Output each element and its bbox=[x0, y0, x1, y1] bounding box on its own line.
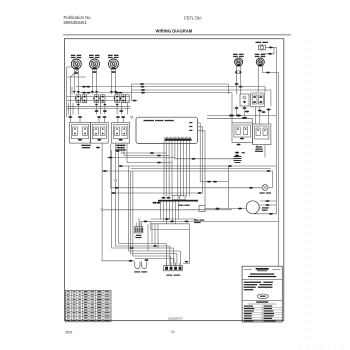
wire y224 bbox=[151, 223, 190, 225]
terminal blob bbox=[216, 208, 220, 210]
wire bus N top bbox=[132, 90, 271, 106]
wire receptacle chain bottom bbox=[67, 100, 130, 102]
terminal blob bbox=[165, 218, 169, 220]
wire left run x118 to bundle bbox=[119, 144, 167, 244]
receptacle block A3 bbox=[114, 95, 126, 103]
wire drop to terminal block bbox=[170, 256, 172, 265]
wire surface unit lead bbox=[91, 69, 93, 95]
header rule bbox=[63, 34, 291, 36]
wire relay to motor bbox=[205, 208, 228, 210]
wire right vertical to warning box bbox=[278, 221, 280, 266]
wire drop to terminal block bbox=[169, 246, 171, 265]
wire y168 run bbox=[131, 167, 271, 169]
connector blob mid row bbox=[103, 110, 107, 112]
wire y219 bbox=[151, 218, 197, 220]
connector bar stack bbox=[234, 156, 242, 163]
wire to oven light conn bbox=[139, 221, 141, 226]
surface unit LF bbox=[233, 54, 244, 67]
blob above receptacle bbox=[110, 91, 113, 92]
surface unit WZ bbox=[108, 55, 119, 70]
wire receptacle drop bbox=[68, 103, 70, 115]
blob on bundle bbox=[153, 245, 157, 247]
oven light connector block bbox=[134, 227, 143, 238]
svg-text:10: 10 bbox=[171, 330, 175, 334]
terminal blob bbox=[213, 181, 217, 183]
wire strip drop bbox=[160, 202, 162, 220]
wire receptacle chain top bbox=[67, 96, 130, 98]
blob below receptacle bbox=[104, 104, 107, 105]
terminal lens under LF unit bbox=[235, 71, 241, 74]
wire right vertical run L2 bbox=[278, 73, 280, 222]
door lock switch block bbox=[251, 93, 265, 107]
wire RF unit lead right bend bbox=[262, 66, 278, 73]
svg-text:316205727: 316205727 bbox=[168, 317, 183, 321]
wire EOC harness drop bbox=[188, 141, 190, 197]
wire blob to switch bbox=[104, 118, 106, 123]
blob under latch switch 2 bbox=[243, 107, 247, 109]
oven light OL1 bbox=[256, 42, 268, 50]
wire motor loop right b bbox=[260, 200, 276, 202]
terminal blob bbox=[141, 86, 145, 88]
terminal blob bbox=[266, 204, 270, 206]
terminal blob bbox=[192, 158, 196, 160]
terminal blob bbox=[141, 92, 145, 94]
wire feeder drop bbox=[157, 224, 159, 248]
wire harness bend right y159 bbox=[175, 141, 237, 159]
wire surface unit lead bbox=[110, 69, 112, 95]
terminal blob bbox=[119, 165, 123, 167]
surface switch S2 bbox=[91, 123, 109, 144]
wire R2 bottom drop 1 bbox=[256, 145, 258, 152]
wire strip drop bbox=[178, 202, 180, 220]
wire y221 extension right bbox=[206, 220, 279, 222]
wire RR unit lead bend bbox=[71, 67, 81, 117]
wire strip drop bbox=[169, 202, 171, 220]
wire conn lead 2 bbox=[138, 218, 140, 227]
terminal blob bbox=[235, 155, 239, 157]
terminal blob bbox=[115, 187, 119, 189]
connector blob row bbox=[116, 116, 120, 118]
terminal blob bbox=[129, 260, 133, 262]
wire receptacle drop bbox=[100, 103, 102, 115]
svg-text:WIRING DIAGRAM: WIRING DIAGRAM bbox=[156, 29, 193, 34]
wire blob to switch bbox=[117, 118, 119, 123]
bake relay box R1 bbox=[232, 123, 253, 142]
terminal blob bbox=[170, 221, 174, 223]
wire conn lead 3 bbox=[141, 223, 143, 227]
connector blob mid row bbox=[119, 110, 123, 112]
wire blob to switch bbox=[69, 118, 71, 123]
terminal blob bbox=[236, 114, 241, 116]
label convect fan bbox=[194, 220, 204, 221]
wire receptacle drop bbox=[126, 103, 128, 115]
blob under strip L2 bbox=[157, 202, 161, 204]
svg-text:FEFL79A: FEFL79A bbox=[184, 16, 202, 21]
wire EOC harness drop extra bbox=[163, 141, 165, 197]
convection motor M1 bbox=[246, 201, 269, 214]
blob y166 right bbox=[228, 165, 232, 167]
wire drop to terminal block bbox=[176, 254, 178, 265]
wire EOC pin W wrap bbox=[198, 127, 203, 193]
terminal blob bbox=[112, 192, 116, 194]
wire drop x228 bbox=[227, 166, 229, 209]
wire strip drop bbox=[166, 202, 168, 224]
wire strip drop bbox=[172, 202, 174, 222]
terminal blob bbox=[130, 247, 134, 249]
wire oven light to right run bbox=[265, 46, 276, 48]
wire harness drop 2 cont bbox=[168, 156, 170, 197]
terminal blob under LR unit bbox=[93, 71, 97, 73]
terminal blob bbox=[249, 187, 253, 189]
receptacle block A2 bbox=[93, 95, 105, 103]
wire drop to terminal block bbox=[165, 244, 167, 265]
surface switch S1 bbox=[70, 123, 91, 149]
oven light switch box R2 bbox=[253, 124, 271, 152]
wire harness drop 1 cont bbox=[165, 153, 167, 197]
wire EOC pin DLB wrap bbox=[198, 131, 206, 206]
scan dots bottom bbox=[300, 347, 345, 349]
blob at block right bend bbox=[185, 261, 189, 263]
terminal blob bbox=[86, 86, 90, 88]
wire motor loop right a bbox=[259, 204, 276, 206]
surface unit RR bbox=[71, 55, 82, 70]
wire left run y188 to lamp bbox=[111, 144, 262, 188]
wire surface unit lead bbox=[73, 69, 75, 95]
wire bus L1 top bbox=[132, 84, 229, 94]
blob y171 left bbox=[103, 170, 107, 172]
wire stub bbox=[132, 100, 138, 102]
wire receptacle drop bbox=[104, 103, 106, 115]
blob under B2 bbox=[96, 147, 100, 149]
wire conn lead 1 bbox=[135, 223, 137, 227]
wire y210 run bbox=[103, 209, 232, 211]
electronic oven control EOC bbox=[136, 117, 198, 143]
wire bus L2 top bbox=[76, 87, 266, 93]
terminal blob bbox=[133, 100, 137, 102]
blob under strip L1 bbox=[153, 202, 157, 204]
blob lock switch bbox=[258, 110, 262, 112]
terminal blob under WZ unit bbox=[112, 71, 116, 73]
wire x128 drop to bundle bbox=[129, 166, 181, 251]
wire receptacle drop bbox=[77, 103, 79, 115]
broil element coils bbox=[134, 262, 147, 273]
wire drop to terminal block bbox=[173, 259, 175, 265]
wire left run x115 to bundle bbox=[116, 144, 170, 247]
receptacle block A3 extra contact bbox=[126, 95, 130, 103]
wire surface unit lead bbox=[77, 69, 79, 95]
wire feeder drop bbox=[147, 224, 149, 251]
wire y157 run bbox=[107, 157, 175, 159]
wire bus mid 1 bbox=[67, 105, 131, 107]
connector blob row bbox=[103, 116, 107, 118]
terminal blob under RR unit bbox=[74, 72, 78, 74]
wire blob to switch bbox=[98, 118, 100, 123]
connector blob row bbox=[97, 116, 101, 118]
legend table bbox=[65, 290, 111, 322]
wire surface unit lead bbox=[96, 69, 98, 95]
blob near coils bbox=[145, 259, 149, 261]
blob below receptacle bbox=[116, 104, 119, 105]
blob y157 left bbox=[109, 157, 113, 159]
terminal blob bbox=[229, 114, 234, 116]
wire feeder drop bbox=[154, 224, 156, 246]
terminal blob bbox=[267, 170, 271, 172]
wire harness bend y162 bbox=[127, 141, 172, 163]
diagram border frame bbox=[65, 39, 284, 321]
wire x132 drop to bundle bbox=[133, 171, 171, 256]
terminal blob bbox=[141, 89, 145, 91]
scan perforation dots right bbox=[308, 40, 310, 340]
label BK bbox=[242, 152, 245, 153]
blob above receptacle bbox=[114, 91, 117, 92]
wire oven light loop bbox=[262, 47, 274, 57]
wire right vertical run L1 bbox=[275, 47, 277, 213]
terminal blob bbox=[266, 200, 270, 202]
surface unit RF bbox=[255, 54, 266, 67]
wire latch drop 1 bbox=[236, 106, 238, 116]
terminal blob right of RF unit bbox=[266, 72, 270, 74]
wire mid right 2 bbox=[207, 118, 253, 123]
connector blob row bbox=[121, 116, 125, 118]
wire R2 bottom drop 2 bbox=[264, 145, 266, 158]
surface unit LR bbox=[89, 55, 100, 70]
terminal blob bbox=[87, 92, 91, 94]
blob above receptacle bbox=[91, 91, 94, 92]
wire blob link bbox=[236, 153, 238, 154]
wire LF unit lead 2 bbox=[240, 66, 242, 94]
wire harness drop 3 cont bbox=[171, 163, 173, 197]
blob y193 right end bbox=[198, 192, 202, 194]
blob on strip 2 bbox=[167, 197, 171, 199]
wire drop to terminal block bbox=[179, 251, 181, 265]
terminal blob bbox=[115, 92, 119, 94]
wire LF unit lead bbox=[236, 66, 238, 94]
blob under latch switch bbox=[235, 107, 239, 109]
connector blob row bbox=[68, 116, 72, 118]
wire EOC harness drop bbox=[177, 141, 179, 197]
terminal blob bbox=[238, 208, 242, 210]
junction node 180 bbox=[115, 180, 117, 182]
header publication number bbox=[64, 15, 92, 25]
blob below receptacle bbox=[77, 104, 80, 105]
wire harness bend y153 bbox=[122, 141, 167, 153]
oven lamp OL2 bbox=[260, 185, 272, 194]
connector blob row bbox=[78, 116, 82, 118]
wire y248 link bbox=[166, 247, 173, 249]
blob on strip bbox=[162, 197, 166, 199]
terminal blob bbox=[140, 83, 144, 85]
wire right loop down bbox=[183, 224, 189, 264]
wire bus drop bbox=[131, 84, 133, 101]
terminal blob bbox=[242, 117, 247, 119]
blob x268 bbox=[267, 109, 271, 111]
wire bus top 4 bbox=[76, 92, 232, 94]
wire left run to terminal bundle bbox=[111, 150, 166, 248]
terminal blob bbox=[157, 162, 161, 164]
wire EOC harness drop bbox=[180, 141, 182, 197]
wire surface unit lead bbox=[115, 69, 117, 95]
blob below receptacle bbox=[95, 104, 98, 105]
connector blob mid row bbox=[95, 110, 99, 112]
wire RF unit lead bbox=[257, 66, 259, 92]
terminal blob bbox=[235, 152, 239, 154]
junction bbox=[131, 116, 133, 118]
warning box bbox=[242, 266, 282, 322]
blob under B3 label bbox=[116, 150, 120, 152]
terminal blob bbox=[269, 213, 273, 215]
wire blob to switch bbox=[122, 118, 124, 123]
wire RR unit outer lead bbox=[67, 67, 73, 117]
wire y171 lamp feed bbox=[102, 170, 272, 172]
wire bus into R1 bbox=[231, 93, 233, 123]
wire receptacle drop bbox=[120, 103, 122, 115]
blob above receptacle bbox=[77, 91, 80, 92]
receptacle block A1 bbox=[75, 95, 87, 103]
svg-text:8901: 8901 bbox=[65, 331, 72, 335]
terminal blob bbox=[268, 53, 272, 55]
blob lock switch 2 bbox=[262, 111, 266, 113]
wire EOC harness drop bbox=[183, 141, 185, 197]
latch switch block bbox=[240, 94, 249, 106]
wire receptacle drop bbox=[96, 103, 98, 115]
svg-text:5995358461: 5995358461 bbox=[64, 20, 88, 25]
wire mid right 1 bbox=[207, 115, 276, 117]
wire left run to broil element bbox=[102, 144, 134, 261]
wire drop to terminal block bbox=[172, 248, 174, 265]
wire y258 to block bbox=[135, 258, 174, 260]
wire loop y229 bbox=[151, 221, 190, 229]
wire EOC harness drop bbox=[186, 141, 188, 197]
blob LF lead at bus bbox=[235, 83, 239, 85]
wire strip drop bbox=[175, 202, 177, 224]
blob above receptacle bbox=[95, 91, 98, 92]
wire EOC pin BK wrap bbox=[198, 123, 201, 182]
wire receptacle drop bbox=[72, 103, 74, 115]
wire y221 bbox=[140, 220, 206, 222]
wire right drop x268 bbox=[268, 108, 270, 124]
wire receptacle drop bbox=[116, 103, 118, 115]
wire y181 bbox=[200, 181, 228, 183]
wire left run y193 bbox=[111, 192, 202, 194]
blob under S1 right bbox=[245, 111, 249, 113]
terminal blob bbox=[144, 221, 148, 223]
terminal blob bbox=[82, 86, 86, 88]
terminal blob bbox=[269, 47, 273, 49]
blob under R1 bbox=[237, 144, 241, 146]
terminal blob bbox=[157, 155, 161, 157]
terminal blob bbox=[82, 92, 86, 94]
wire blob to switch bbox=[79, 118, 81, 123]
terminal blob bbox=[119, 92, 123, 94]
wire lock drop 2 bbox=[259, 107, 261, 124]
blob LF lead at bus 2 bbox=[239, 86, 243, 88]
wire bus mid 2 bbox=[67, 108, 131, 110]
terminal blob bbox=[185, 221, 189, 223]
wire strip drop bbox=[163, 202, 165, 222]
relay terminal strip bbox=[158, 196, 198, 202]
blob above receptacle bbox=[73, 91, 76, 92]
wire feeder drop bbox=[151, 224, 153, 244]
wire into motor bbox=[228, 208, 246, 210]
junction node 210 bbox=[101, 209, 103, 211]
wire harness bend y155 bbox=[124, 141, 169, 156]
strip label bbox=[178, 205, 190, 206]
wire motor bottom to right bbox=[253, 213, 277, 215]
wire bus left bracket bbox=[71, 87, 73, 95]
terminal block TB bbox=[164, 263, 183, 276]
terminal blob bbox=[207, 181, 211, 183]
wire lock drop 1 bbox=[255, 107, 257, 124]
terminal blob bbox=[150, 152, 154, 154]
small relay box left of motor bbox=[199, 206, 205, 212]
wire lamp right bbox=[268, 171, 273, 188]
wire x130 drop to bundle bbox=[131, 171, 177, 254]
surface switch S3 bbox=[112, 123, 130, 151]
wire cross link y77 bbox=[67, 76, 86, 78]
wire y166 branch bbox=[119, 165, 277, 167]
wire latch drop 2 bbox=[244, 106, 246, 116]
